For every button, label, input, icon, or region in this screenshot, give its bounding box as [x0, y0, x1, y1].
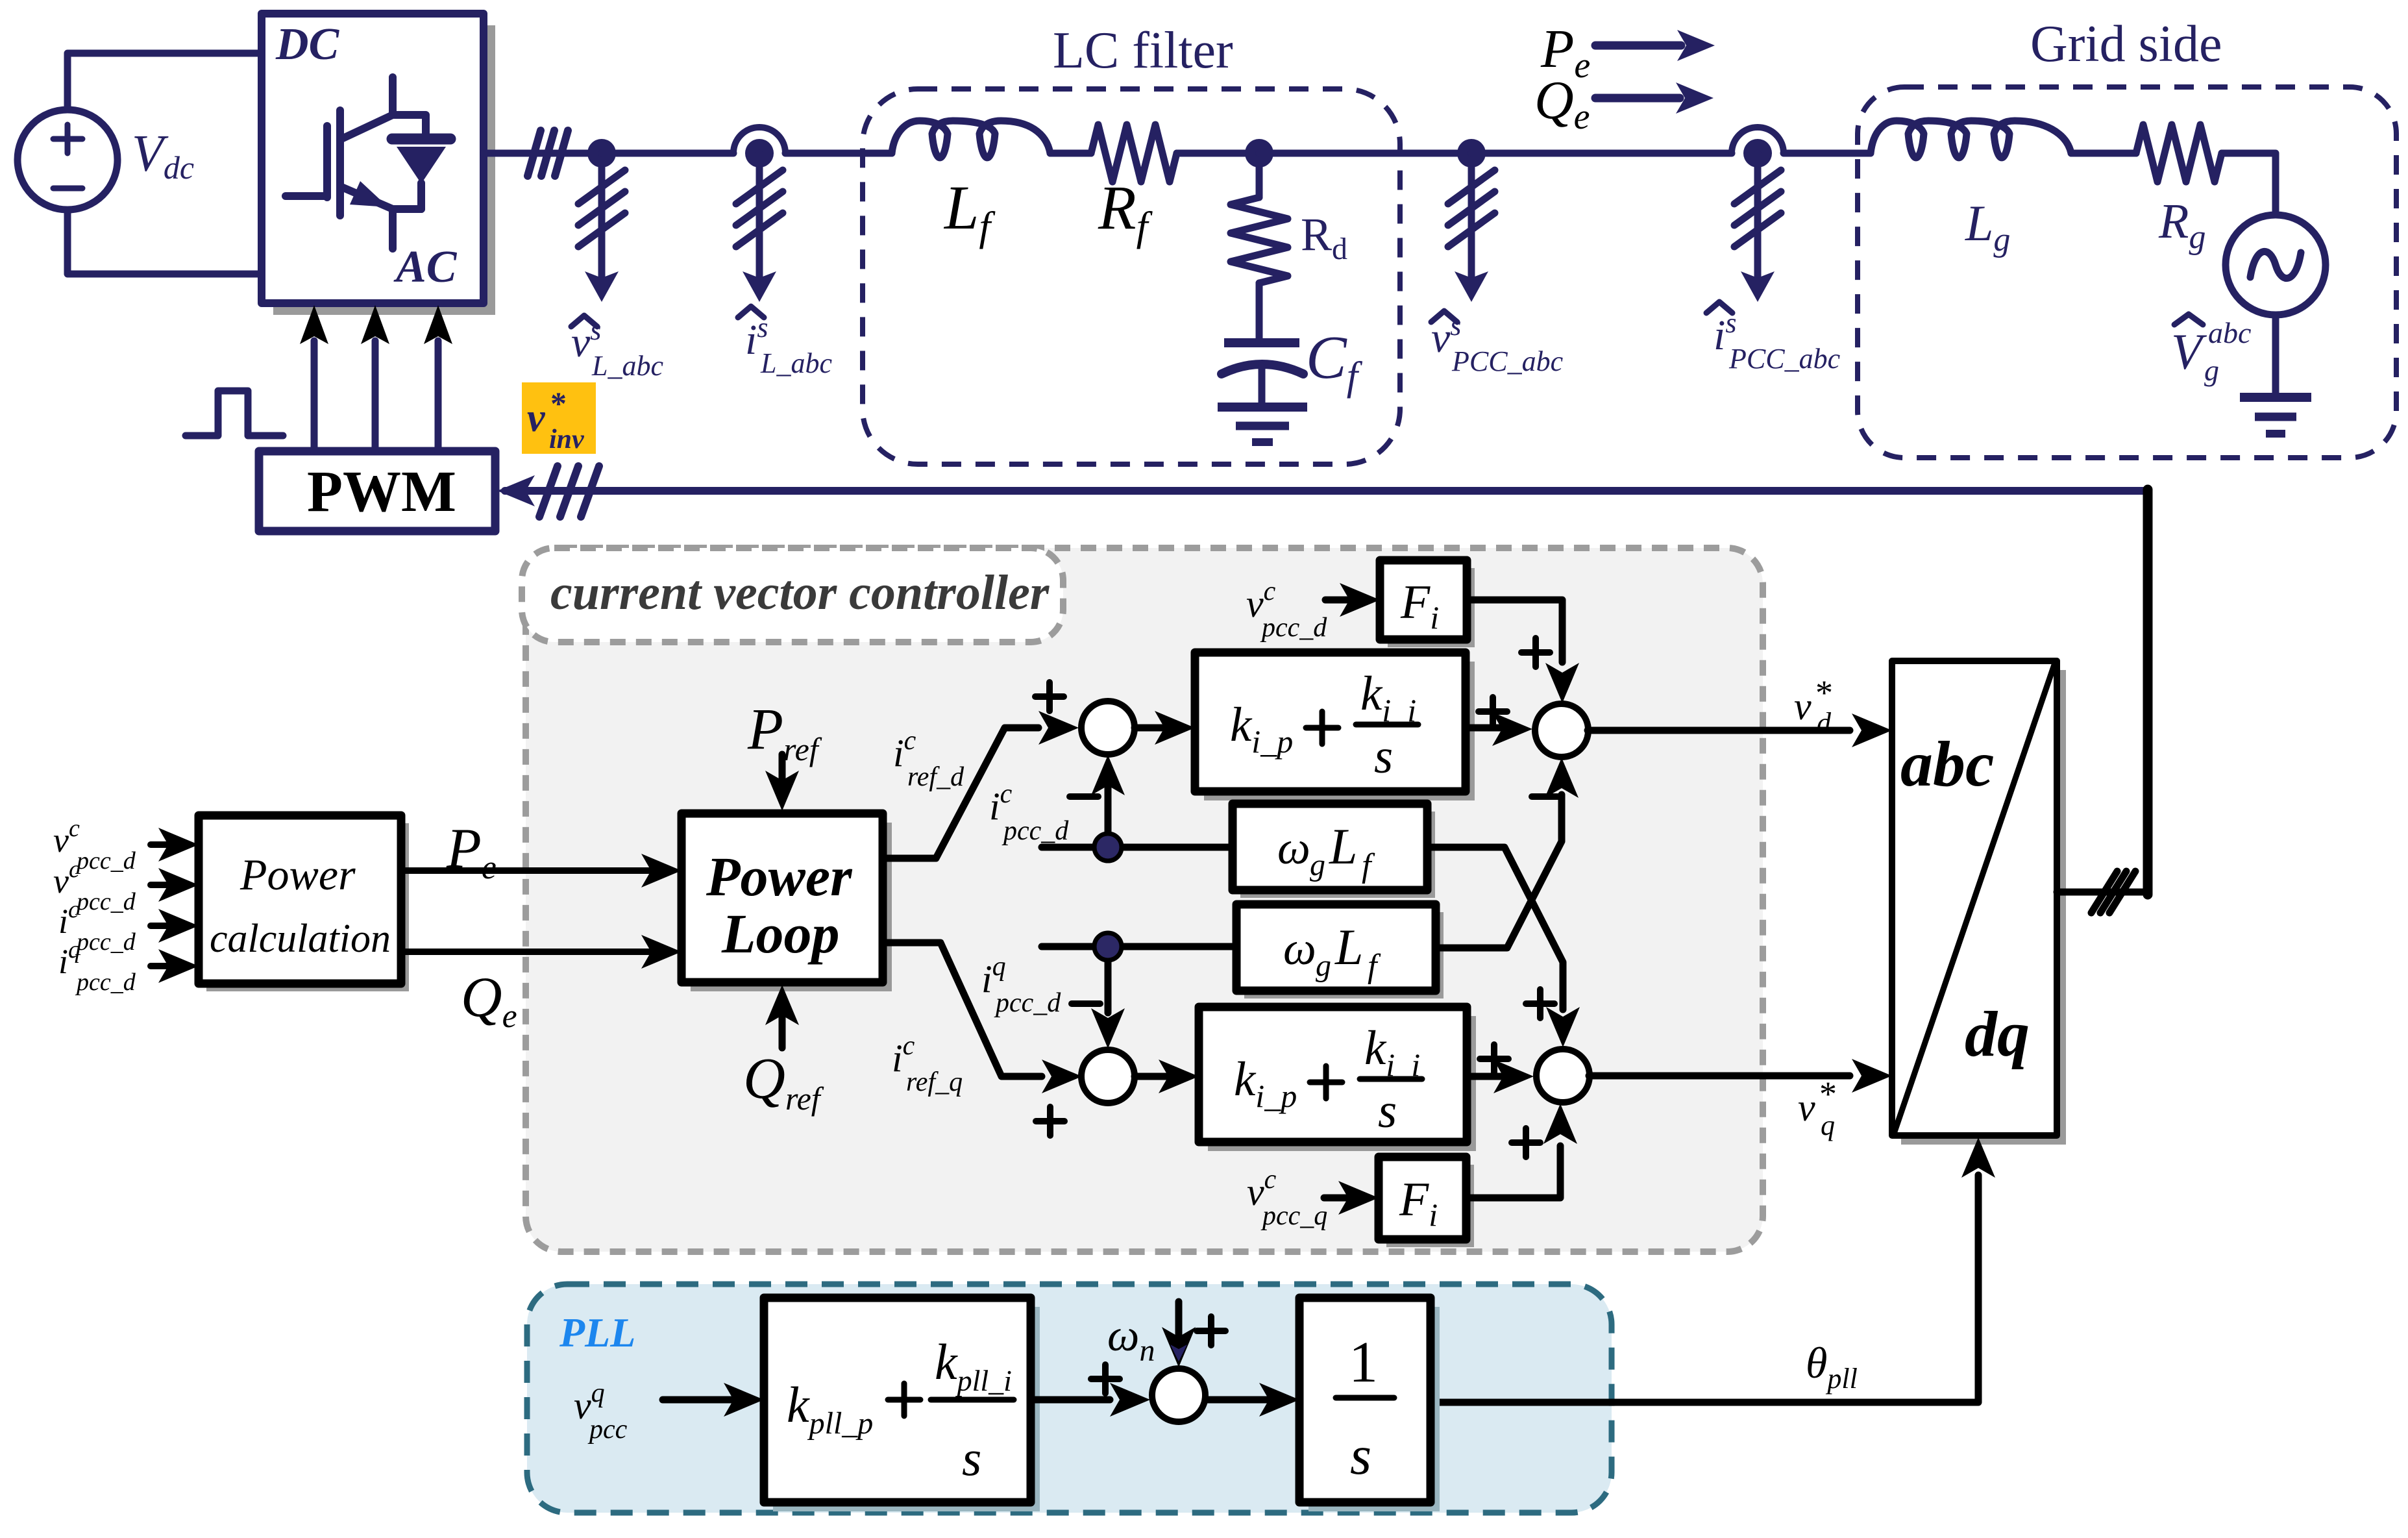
omega_g L_f block 1: [1240, 812, 1435, 898]
svg-text:Power: Power: [240, 850, 356, 899]
svg-text:L_abc: L_abc: [760, 347, 832, 379]
abc/dq transform block: [1901, 670, 2066, 1145]
wire S2 to abc/dq (v_d*): [1588, 727, 1850, 734]
svg-text:DC: DC: [275, 19, 340, 69]
svg-text:ω: ω: [1277, 822, 1310, 874]
wire PLL PI to S5: [1031, 1396, 1110, 1404]
wire F_i to S2 top: [1467, 600, 1562, 662]
svg-text:pcc: pcc: [587, 1415, 628, 1445]
svg-text:dq: dq: [1965, 998, 2030, 1070]
minus below S2: [1532, 793, 1560, 800]
plus at d-sum left: [1035, 682, 1064, 711]
theta_pll wire into abc/dq: [1431, 1175, 1978, 1402]
wire: [1471, 150, 1732, 157]
svg-text:V: V: [2171, 323, 2207, 380]
svg-text:*: *: [550, 385, 567, 421]
Power calculation block: [206, 823, 409, 991]
resistor Rf: [1091, 125, 1177, 182]
svg-text:1: 1: [1349, 1330, 1378, 1395]
PWM block: [259, 451, 495, 531]
resistor Rg: [2136, 125, 2222, 182]
summing junction S1 (d-axis error): [1081, 701, 1135, 754]
ground (grid): [2240, 393, 2311, 402]
AC source Vg: [2226, 215, 2326, 315]
feedback wire from abc/dq to PWM: [505, 487, 2148, 495]
svg-text:pcc_q: pcc_q: [1260, 1201, 1327, 1231]
wire S4 to abc/dq (v_q*): [1589, 1073, 1850, 1080]
svg-text:Power: Power: [706, 845, 853, 908]
wire F_i to S4 bottom: [1466, 1146, 1560, 1198]
svg-text:pcc_d: pcc_d: [75, 928, 136, 956]
current sensor node i_PCC: [1732, 127, 1784, 153]
svg-text:pcc_d: pcc_d: [75, 969, 136, 996]
svg-text:PCC_abc: PCC_abc: [1451, 345, 1564, 377]
wire Rd to Cf: [1256, 283, 1263, 339]
node A (v_L tap): [587, 139, 616, 167]
svg-text:PCC_abc: PCC_abc: [1728, 343, 1841, 375]
wire S1 to PI1: [1135, 725, 1165, 732]
svg-text:s: s: [1374, 730, 1393, 784]
summing junction S3 (q-axis error): [1081, 1050, 1135, 1103]
Grid side dashed box: [1858, 87, 2396, 458]
svg-text:s: s: [962, 1430, 981, 1486]
summing junction S4 (v_q output): [1536, 1049, 1590, 1102]
PLL region: [527, 1284, 1612, 1513]
gate drive arrows PWM to inverter: [314, 341, 438, 451]
svg-text:Grid side: Grid side: [2030, 16, 2222, 73]
wire into grid box: [1784, 150, 1871, 157]
node B: [1245, 139, 1273, 167]
wire node B to PCC: [1259, 150, 1471, 157]
svg-text:abc: abc: [2208, 316, 2251, 349]
wire into LC filter: [785, 150, 892, 157]
capacitor Cf: [1224, 338, 1299, 347]
wire: [602, 150, 733, 157]
wire PI2 to S4: [1467, 1073, 1502, 1080]
svg-text:ref_q: ref_q: [906, 1067, 963, 1097]
svg-text:g: g: [1316, 949, 1331, 983]
wire iref_q to q-sum: [883, 943, 1042, 1076]
minus at d-sum bottom: [1070, 793, 1098, 800]
wire dc source to inverter: [68, 53, 262, 274]
inductor Lg: [1871, 121, 2071, 158]
PI controller block PI2: [1208, 1016, 1476, 1151]
svg-text:q: q: [1821, 1110, 1835, 1141]
svg-text:g: g: [2204, 354, 2219, 387]
wire S3 to PI2: [1135, 1073, 1168, 1080]
summing junction S5 (PLL): [1152, 1369, 1205, 1422]
svg-text:L_abc: L_abc: [591, 350, 663, 382]
svg-text:ref_d: ref_d: [907, 762, 964, 792]
wire AC source to ground: [2272, 315, 2279, 395]
pulse symbol: [186, 391, 283, 436]
wire Lf to Rf: [1050, 150, 1091, 157]
wire Rg to AC source: [2222, 153, 2276, 215]
svg-text:d: d: [1817, 707, 1832, 739]
svg-text:*: *: [1815, 673, 1833, 712]
svg-text:abc: abc: [1900, 728, 1994, 800]
wire PI1 to S2: [1466, 725, 1501, 732]
svg-text:LC filter: LC filter: [1053, 22, 1233, 79]
resistor Rd (damping): [1231, 197, 1288, 283]
node C (v_PCC tap): [1457, 139, 1486, 167]
wire Cf to ground: [1259, 366, 1266, 404]
abc/dq output to feedback: [2057, 490, 2148, 896]
svg-text:PWM: PWM: [307, 460, 456, 524]
svg-text:Loop: Loop: [721, 902, 840, 965]
svg-text:s: s: [1378, 1084, 1397, 1138]
current vector controller region: [526, 548, 1763, 1252]
svg-text:PLL: PLL: [559, 1309, 635, 1356]
i_pcc_d stub and node: [1042, 844, 1233, 851]
cross coupling wires: [1427, 847, 1563, 1010]
controller title box: [522, 548, 1063, 642]
3-phase slashes: [528, 130, 568, 176]
PLL PI block: [773, 1307, 1040, 1511]
svg-text:inv: inv: [549, 425, 585, 454]
svg-text:v: v: [527, 396, 546, 440]
svg-text:pcc_d: pcc_d: [1001, 816, 1069, 846]
LC filter dashed box: [863, 89, 1400, 464]
svg-text:ω: ω: [1283, 923, 1316, 974]
wire node to Rd: [1256, 153, 1263, 197]
svg-text:L: L: [1334, 919, 1363, 975]
svg-text:*: *: [1819, 1074, 1837, 1113]
Power Loop block: [691, 823, 892, 991]
svg-text:g: g: [1310, 848, 1325, 882]
svg-text:current vector controller: current vector controller: [550, 565, 1050, 620]
wire Pe to Power Loop: [401, 867, 649, 874]
integrator block 1/s: [1308, 1307, 1440, 1511]
svg-text:L: L: [1329, 818, 1357, 874]
inverter U1 box: [273, 25, 495, 315]
wire iref_d to d-sum: [883, 728, 1038, 858]
svg-text:pcc_d: pcc_d: [994, 988, 1061, 1018]
IGBT Q1 with antiparallel diode: [286, 77, 450, 249]
summing junction S2 (v_d output): [1535, 704, 1588, 757]
inductor Lf: [892, 121, 1050, 158]
wire Rf to node: [1177, 150, 1259, 157]
svg-text:pcc_d: pcc_d: [75, 888, 136, 915]
svg-text:pcc_d: pcc_d: [1260, 613, 1327, 643]
omega_g L_f block 2: [1244, 912, 1444, 998]
svg-text:AC: AC: [393, 242, 458, 292]
voltage sensor arrow v_L: [598, 153, 606, 289]
wire Lg to Rg: [2071, 150, 2136, 157]
svg-text:v: v: [1794, 685, 1812, 728]
dc source V1: [18, 110, 117, 210]
svg-text:s: s: [1350, 1425, 1371, 1486]
PI controller block PI1: [1204, 662, 1475, 800]
svg-text:pcc_d: pcc_d: [75, 847, 136, 874]
svg-text:calculation: calculation: [210, 917, 391, 961]
inverter output wire: [484, 150, 602, 157]
input arrows: [151, 845, 170, 966]
svg-text:v: v: [1798, 1086, 1815, 1129]
wire S5 to 1/s: [1205, 1396, 1267, 1404]
i_pcc_q stub and node: [1042, 943, 1236, 950]
ground (LC filter): [1218, 403, 1307, 412]
v_inv highlighted label: [522, 382, 596, 454]
wire Qe to Power Loop: [401, 949, 649, 955]
current sensor node i_L: [733, 127, 785, 153]
